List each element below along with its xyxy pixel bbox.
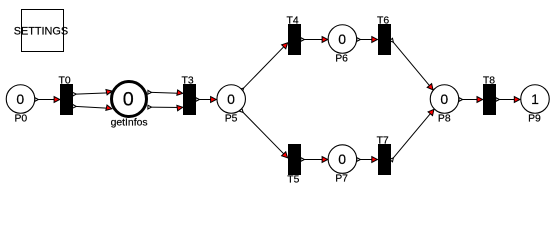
wire P6 to T6 xyxy=(357,39,377,41)
place P6 xyxy=(328,25,357,65)
wire getInfos to T3 upper xyxy=(148,90,183,96)
wire T3 to P5 xyxy=(196,99,216,101)
svg-text:T8: T8 xyxy=(483,76,495,87)
wire P5 to T5 xyxy=(241,110,288,158)
svg-text:0: 0 xyxy=(338,151,346,167)
svg-text:T7: T7 xyxy=(377,136,389,147)
transition T8 xyxy=(483,76,496,115)
svg-text:T5: T5 xyxy=(287,175,299,186)
svg-text:0: 0 xyxy=(123,89,134,111)
svg-text:0: 0 xyxy=(227,91,235,107)
place P0 xyxy=(6,85,35,125)
wire T0 to getInfos lower xyxy=(73,105,112,111)
place P8 xyxy=(430,85,459,125)
svg-text:1: 1 xyxy=(531,91,539,107)
transition T4 xyxy=(286,16,301,55)
SETTINGS box xyxy=(14,10,68,52)
svg-text:SETTINGS: SETTINGS xyxy=(14,26,68,38)
wire getInfos to T3 lower xyxy=(148,105,183,111)
svg-text:T0: T0 xyxy=(59,76,71,87)
place P7 xyxy=(328,145,357,185)
svg-text:getInfos: getInfos xyxy=(111,118,148,129)
svg-text:T6: T6 xyxy=(377,16,389,27)
wire P0 to T0 xyxy=(35,99,60,101)
svg-text:P6: P6 xyxy=(335,54,348,65)
transition T0 xyxy=(59,76,73,115)
svg-text:P9: P9 xyxy=(528,114,541,125)
svg-text:P7: P7 xyxy=(335,173,348,184)
svg-text:P8: P8 xyxy=(438,114,451,125)
place P5 xyxy=(217,85,246,125)
wire T5 to P7 xyxy=(301,159,328,161)
svg-text:T4: T4 xyxy=(286,16,298,27)
wire T7 to P8 xyxy=(391,109,434,160)
svg-text:P5: P5 xyxy=(225,114,238,125)
svg-text:0: 0 xyxy=(338,31,346,47)
wire T6 to P8 xyxy=(391,40,433,90)
transition T3 xyxy=(182,76,196,115)
svg-text:0: 0 xyxy=(440,91,448,107)
transition T7 xyxy=(377,136,391,175)
wire T8 to P9 xyxy=(496,99,520,101)
wire P8 to T8 xyxy=(459,99,482,101)
place getInfos xyxy=(111,82,148,129)
svg-text:T3: T3 xyxy=(182,76,194,87)
svg-text:P0: P0 xyxy=(14,114,27,125)
transition T6 xyxy=(377,16,391,55)
wire P7 to T7 xyxy=(357,159,377,161)
wire T4 to P6 xyxy=(301,39,328,41)
wire P5 to T4 xyxy=(241,43,287,91)
transition T5 xyxy=(287,144,301,186)
svg-text:0: 0 xyxy=(16,91,24,107)
wire T0 to getInfos upper xyxy=(73,88,113,94)
place P9 xyxy=(521,85,550,125)
